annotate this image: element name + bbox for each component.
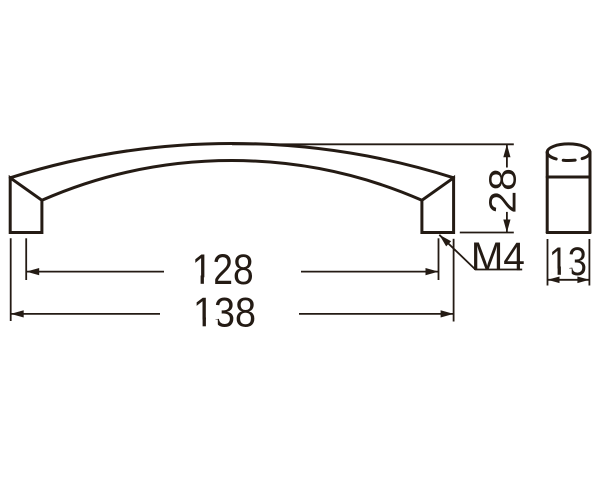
dim 28 line upper segment [506, 144, 508, 167]
dim 13 line [548, 279, 590, 281]
dim 28 bottom arrowhead [503, 220, 510, 233]
side view bottom edge [547, 231, 590, 234]
dim 138 right arrowhead [441, 310, 454, 317]
left foot [10, 178, 42, 233]
right foot [422, 178, 454, 233]
dim 138 line right segment [299, 313, 454, 315]
dim 128 left arrowhead [26, 268, 39, 275]
dim 28 top extension line [232, 143, 514, 145]
dim 13 left arrowhead [548, 277, 560, 284]
dim 128 line left segment [26, 271, 164, 273]
dim 13 right extension line [588, 239, 590, 286]
svg-text:13: 13 [549, 240, 587, 284]
dim 13 left extension line [547, 239, 549, 286]
svg-text:138: 138 [193, 288, 256, 335]
svg-text:M4: M4 [471, 235, 525, 279]
handle outer arc [10, 143, 453, 177]
M4 leader line [439, 235, 522, 270]
side view right edge [589, 152, 592, 232]
M4 leader arrowhead [437, 232, 451, 246]
digit 1 foot mask, dim 128 text [194, 277, 215, 285]
side view joint line [547, 176, 590, 179]
dim 128 right arrowhead [426, 268, 439, 275]
dim 128 line right segment [301, 271, 439, 273]
dim 138 left extension line [10, 238, 12, 321]
dim 13 right arrowhead [577, 277, 589, 284]
svg-text:128: 128 [192, 247, 254, 294]
handle inner arc [42, 161, 422, 201]
dim 28 line lower segment [506, 212, 508, 233]
dim 28 bottom extension line [460, 232, 514, 234]
digit 1 foot mask, dim 13 text [551, 269, 571, 277]
side view top ellipse solid arc [547, 144, 590, 152]
dim 138 line left segment [11, 313, 160, 315]
side view top ellipse hidden dashed arc [547, 152, 590, 160]
dim 128 left extension line [25, 238, 27, 280]
dim 138 right extension line [453, 239, 455, 322]
digit 1 foot mask, dim 138 text [195, 320, 217, 328]
svg-text:28: 28 [483, 168, 525, 214]
dim 138 left arrowhead [11, 310, 24, 317]
dim 28 top arrowhead [503, 144, 510, 157]
side view left edge [546, 152, 549, 232]
dim 128 right extension line [438, 238, 440, 280]
